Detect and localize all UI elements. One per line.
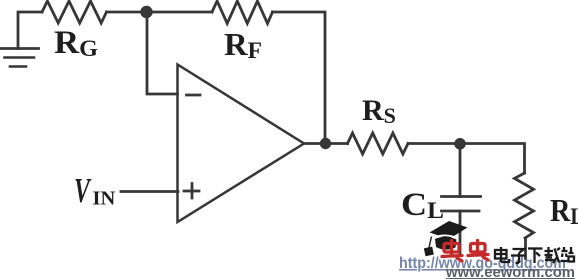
wire node A down to inverting input bbox=[147, 12, 178, 94]
node B output bbox=[320, 138, 331, 149]
zhan bbox=[561, 247, 575, 262]
watermark site name dianzi xiazai zhan bbox=[495, 247, 574, 263]
wire CL bottom bbox=[459, 211, 462, 253]
wire node C down to CL bbox=[459, 144, 462, 197]
node A bbox=[140, 6, 152, 18]
zi bbox=[511, 249, 526, 263]
svg-text:V: V bbox=[74, 172, 91, 211]
wire RF to output node (top right corner down) bbox=[273, 12, 326, 144]
zai bbox=[545, 247, 561, 263]
wire RL bottom bbox=[524, 238, 527, 259]
op-amp plus sign bbox=[184, 184, 199, 199]
dian bbox=[495, 247, 509, 262]
xia bbox=[528, 249, 543, 264]
wire RG to node A bbox=[107, 11, 147, 14]
watermark chongchong character 2 bbox=[468, 241, 488, 261]
wire node C to RL corner bbox=[460, 144, 525, 174]
wire ground riser to RG bbox=[18, 12, 42, 49]
op-amp U1 bbox=[178, 65, 305, 223]
svg-text:RS: RS bbox=[362, 94, 396, 128]
wire RS to node C bbox=[408, 142, 460, 145]
watermark graduation cap logo bbox=[424, 221, 468, 256]
resistor RG bbox=[42, 1, 107, 23]
resistor RL bbox=[515, 173, 534, 238]
svg-text:www.eeworm.com: www.eeworm.com bbox=[445, 265, 575, 279]
op-amp minus sign bbox=[187, 94, 201, 97]
svg-text:IN: IN bbox=[93, 188, 116, 210]
watermark chongchong character 1 bbox=[442, 241, 462, 262]
svg-text:RG: RG bbox=[54, 25, 98, 61]
svg-text:RF: RF bbox=[224, 26, 262, 63]
svg-text:CL: CL bbox=[401, 187, 444, 223]
resistor RF bbox=[212, 1, 273, 24]
capacitor CL bbox=[442, 197, 481, 212]
wire VIN to non-inverting input bbox=[121, 190, 178, 193]
wire op-amp output to RS bbox=[304, 142, 348, 145]
node C bbox=[454, 138, 466, 150]
resistor RS bbox=[348, 133, 409, 154]
ground bbox=[0, 49, 39, 67]
wire node A to RF bbox=[147, 11, 213, 14]
svg-text:RL: RL bbox=[550, 192, 578, 229]
